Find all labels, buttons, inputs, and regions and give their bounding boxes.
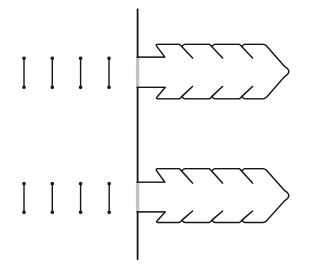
chevron-feathered arrow 2 (lower right) (137, 169, 289, 223)
timeline spine gray segment behind arrow 2 tail (136, 183, 139, 211)
tick mark T22 (vertical segment with end dots) (51, 182, 55, 214)
timeline spine gray segment behind arrow 1 tail (136, 58, 139, 87)
timeline spine (lower black segment) (137, 212, 139, 259)
vertical timeline spine (upper black segment) (137, 9, 139, 57)
tick mark T23 (vertical segment with end dots) (79, 182, 83, 214)
tick mark T12 (vertical segment with end dots) (51, 57, 55, 89)
tick mark T14 (vertical segment with end dots) (107, 57, 111, 89)
timeline spine (middle black segment) (137, 87, 139, 182)
tick mark T11 (vertical segment with end dots) (22, 57, 26, 89)
chevron-feathered arrow 1 (upper right) (137, 44, 289, 99)
tick mark T24 (vertical segment with end dots) (107, 182, 111, 214)
tick mark T13 (vertical segment with end dots) (79, 57, 83, 89)
tick mark T21 (vertical segment with end dots) (22, 182, 26, 214)
